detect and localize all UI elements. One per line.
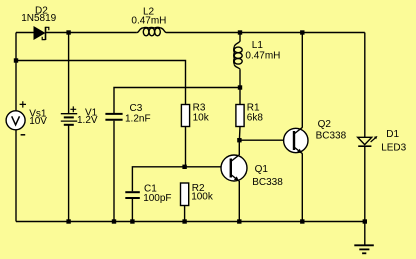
wire battery bottom lead [68,125,70,222]
battery V1 [61,106,77,124]
wire top rail right segment [167,32,365,34]
svg-text:1.2V: 1.2V [77,115,98,126]
svg-text:LED3: LED3 [381,143,406,154]
node battery bottom [66,219,70,223]
wire left rail upper [15,33,17,111]
node Q1 emitter bottom [237,219,241,223]
svg-text:D1: D1 [386,129,399,140]
node left rail branch [14,58,18,62]
node L1 bottom / R1 top [238,85,242,89]
resistor R3 [181,105,189,127]
svg-text:1.2nF: 1.2nF [125,113,151,124]
ground [354,222,374,254]
svg-text:BC338: BC338 [316,131,347,142]
capacitor C1 [125,192,140,198]
svg-text:L1: L1 [252,40,264,51]
inductor L2 [137,27,167,35]
resistor R2 [181,183,189,206]
svg-text:10V: 10V [29,116,47,127]
svg-text:BC338: BC338 [252,177,283,188]
wire battery top lead [68,33,70,114]
svg-text:100k: 100k [191,191,214,202]
node L1 top [238,30,242,34]
svg-text:1N5819: 1N5819 [21,13,56,24]
svg-text:Q1: Q1 [255,164,269,175]
wire bottom rail [16,221,365,223]
node R1 bottom / Q1 collector [237,138,241,142]
wire C1 top lead and base rail to Q1 [132,167,231,192]
capacitor C3 [105,114,122,120]
wire R2 bottom lead [184,206,186,222]
node ground tap [363,219,367,223]
node diode-battery junction [66,30,70,34]
node Q2 emitter bottom [300,219,304,223]
svg-text:6k8: 6k8 [247,112,264,123]
node C1 bottom [130,219,134,223]
wire C3 bottom lead [113,121,115,222]
node Q2 collector top [300,30,304,34]
svg-text:100pF: 100pF [143,193,171,204]
svg-text:Q2: Q2 [318,119,332,130]
node C3 bottom [112,219,116,223]
LED D1 [358,136,378,146]
transistor Q1 [221,140,247,221]
diode D2 [34,26,49,40]
wire top rail middle segment [46,32,137,34]
source Vs1 [6,101,26,135]
wire top rail left segment [16,32,34,34]
svg-text:0.47mH: 0.47mH [245,51,280,62]
svg-text:0.47mH: 0.47mH [131,15,166,26]
wire Q1 collector to base rail of Q2 [239,139,294,141]
wire mid rail (C3 top to L1 bottom) [114,88,240,114]
label V inside Vs1 [12,116,20,125]
inductor L1 [234,33,243,88]
node R2 bottom [182,219,186,223]
wire C1 bottom lead [131,199,133,222]
wire second rail (to R3) [16,61,186,105]
wire right column lower (LED cathode to bottom rail) [364,146,366,221]
svg-text:10k: 10k [193,112,210,123]
wire right column upper (to LED anode) [364,33,366,138]
node R3-R2 junction on base rail [182,165,186,169]
wire R3 bottom lead [185,127,187,167]
wire left rail lower [15,130,17,222]
resistor R1 [236,88,244,141]
transistor Q2 [284,33,308,222]
